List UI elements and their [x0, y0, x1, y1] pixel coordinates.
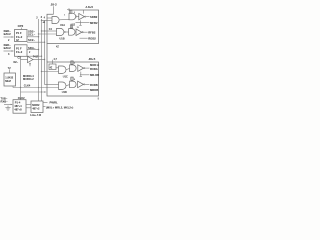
- svg-text:PWRL: PWRL: [50, 101, 59, 105]
- wire U4 out to bus: [27, 49, 39, 51]
- bus line C: [44, 20, 46, 85]
- svg-text:487+2: 487+2: [32, 106, 40, 110]
- wire U6B out to label: [83, 31, 87, 33]
- svg-text:U1C: U1C: [63, 75, 68, 78]
- node JA-2 label top: [51, 2, 57, 6]
- wire U7-U8 stubs: [26, 103, 31, 105]
- wire U6C enable drop: [80, 72, 82, 77]
- driver box U7: [13, 100, 26, 114]
- component box X2 inside lower box: [49, 64, 56, 70]
- wire U3 out to bus: [27, 36, 39, 38]
- wire row4 inputs: [45, 84, 59, 86]
- svg-text:SCL–: SCL–: [28, 33, 36, 37]
- svg-text:RGB2: RGB2: [88, 36, 96, 40]
- buffer U6D: [78, 81, 84, 88]
- resistor R4 pullup: [71, 77, 73, 81]
- wire input arrow 2: [4, 50, 14, 52]
- svg-text:1.8432: 1.8432: [5, 75, 13, 79]
- wire U6C out to label: [85, 67, 89, 69]
- svg-text:MRDB: MRDB: [90, 88, 98, 92]
- svg-text:MHZ: MHZ: [5, 79, 11, 83]
- ground: [7, 106, 9, 108]
- wire U8 out 1: [43, 102, 48, 104]
- wire Y1 out: [12, 86, 14, 88]
- wire buffer out to bus C: [33, 59, 45, 61]
- wire row1 input from bus: [42, 20, 53, 22]
- wire U4 out2 to bus B: [27, 55, 42, 57]
- and-gate U1C: [59, 66, 67, 73]
- wire bus gap segment: [46, 44, 48, 63]
- wire U3 top tick: [21, 28, 23, 30]
- driver box U8: [31, 101, 43, 113]
- and-gate U1A: [52, 17, 59, 24]
- and-gate U1D: [59, 82, 67, 89]
- wire +5V feed top right: [83, 10, 85, 14]
- wire U4 bottom drop: [20, 56, 22, 99]
- wire input arrow 1: [4, 36, 14, 38]
- svg-text:MR·DB: MR·DB: [90, 73, 99, 77]
- wire row2 inputs from bus: [42, 30, 57, 32]
- svg-text:U1D: U1D: [62, 91, 67, 94]
- wire buffer enable: [29, 63, 30, 64]
- svg-text:P1 F: P1 F: [16, 46, 22, 50]
- svg-text:SDB2: SDB2: [90, 15, 98, 19]
- node J8+5 label top right: [85, 5, 93, 9]
- svg-text:4·9a+·5 M: 4·9a+·5 M: [30, 114, 41, 117]
- svg-text:BAU2: BAU2: [4, 46, 12, 50]
- wire U1B out: [66, 31, 69, 33]
- wire row3 inputs: [56, 67, 59, 69]
- svg-text:487+4: 487+4: [14, 104, 22, 108]
- svg-text:U1A: U1A: [60, 24, 65, 27]
- buffer U6B: [76, 29, 82, 36]
- resistor R1 pullup: [70, 10, 72, 13]
- upper gates box: [47, 10, 99, 44]
- svg-text:MXD:A: MXD:A: [90, 63, 99, 67]
- svg-text:7417: 7417: [33, 55, 39, 58]
- svg-text:P1·4: P1·4: [15, 100, 21, 104]
- wire U6A enable drop: [80, 20, 82, 25]
- svg-text:RXB–: RXB–: [1, 100, 9, 104]
- oscillator Y1 box: [4, 73, 16, 86]
- wire row2b line and label: [80, 37, 88, 39]
- wire row1b line and label: [76, 22, 90, 24]
- wire U3 out2 to bus C: [27, 41, 45, 43]
- svg-text:P1 F: P1 F: [16, 31, 22, 35]
- svg-text:F1+2: F1+2: [16, 50, 23, 54]
- buffer U6C: [78, 65, 84, 72]
- wire U6D out to label: [85, 83, 89, 85]
- wire row3b line: [80, 74, 89, 76]
- wire U1A out: [59, 18, 69, 20]
- svg-text:RXDA: RXDA: [90, 67, 98, 71]
- IC box U3 (upper-left): [15, 30, 28, 42]
- svg-text:487+8: 487+8: [14, 108, 22, 112]
- svg-text:MFB2: MFB2: [90, 21, 98, 25]
- svg-text:CLK2: CLK2: [18, 96, 25, 100]
- wire U1D out: [66, 85, 69, 86]
- and-gate U2D: [70, 81, 77, 88]
- bus line B: [41, 19, 43, 101]
- resistor R2 pullup: [71, 25, 73, 29]
- and-gate U2C: [70, 65, 77, 72]
- svg-text:CP2: CP2: [18, 24, 24, 28]
- and-gate U2A: [69, 13, 76, 20]
- svg-text:J8+5: J8+5: [89, 57, 96, 61]
- svg-text:J·8+5: J·8+5: [85, 5, 93, 9]
- bus line A: [38, 19, 40, 101]
- lower gates box: [47, 62, 99, 96]
- svg-text:RFB2: RFB2: [88, 30, 96, 34]
- svg-text:RXDB: RXDB: [90, 83, 98, 87]
- wire Y1 top tick: [9, 69, 11, 73]
- svg-text:MXR2: MXR2: [32, 103, 40, 107]
- wire U1C out: [66, 69, 69, 70]
- and-gate U1B: [57, 28, 64, 35]
- wire U8 out 2: [43, 106, 46, 108]
- svg-text:BAU2: BAU2: [4, 32, 12, 36]
- wire JA-2 vertical drop: [53, 6, 55, 14]
- IC box U4 (lower-left): [15, 45, 28, 57]
- wire row4b line: [80, 89, 90, 91]
- buffer U5 (mid-left): [21, 59, 28, 61]
- wire mid line to box: [21, 91, 46, 93]
- wire U6A out to label: [86, 16, 90, 18]
- svg-text:N2–: N2–: [14, 61, 19, 64]
- svg-text:MXRCL2: MXRCL2: [23, 77, 34, 81]
- and-gate U2B: [69, 29, 75, 36]
- svg-text:U1B: U1B: [60, 37, 65, 40]
- buffer U6A: [79, 13, 85, 19]
- resistor R3 pullup: [71, 61, 73, 65]
- wire row1 input stub: [47, 17, 52, 19]
- svg-text:CLK4: CLK4: [24, 85, 31, 88]
- wire U2A out: [77, 16, 79, 18]
- wire RXB into box: [4, 103, 12, 105]
- svg-text:J8·2: J8·2: [51, 2, 57, 6]
- svg-text:(MXL+ MRL2, MXL2+): (MXL+ MRL2, MXL2+): [46, 106, 73, 110]
- svg-text:SC2–: SC2–: [28, 38, 35, 42]
